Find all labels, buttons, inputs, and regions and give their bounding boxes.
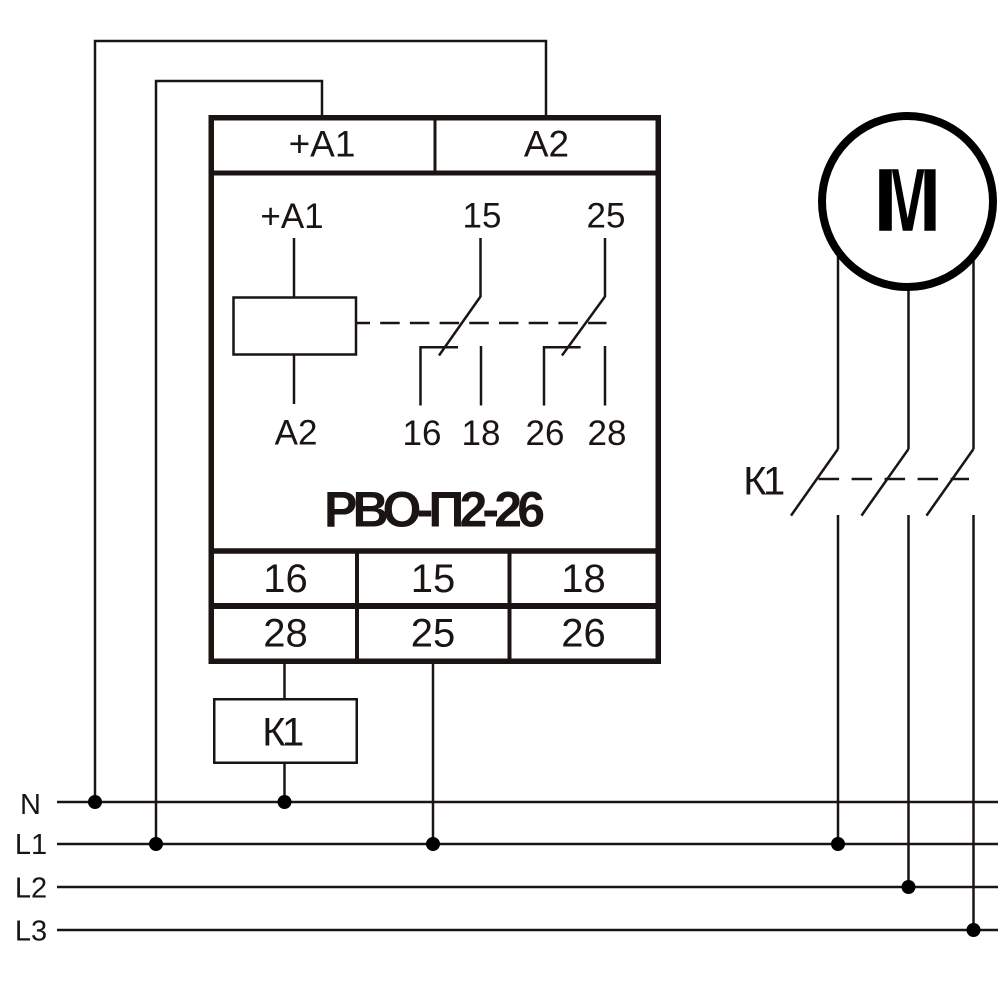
contactor K1 contact arm 1 [791, 449, 838, 516]
svg-text:26: 26 [526, 414, 565, 453]
wire terminal 28 to contactor coil K1 [283, 661, 286, 699]
contact 3 lower stub to L3 [972, 515, 975, 930]
svg-text:N: N [20, 789, 41, 821]
svg-text:L3: L3 [15, 916, 47, 948]
bus L2 [57, 886, 998, 888]
dashed mechanical linkage coil-contacts [357, 322, 607, 325]
dashed linkage of K1 contacts [819, 478, 969, 481]
contact 1 lower stub to L1 [837, 515, 840, 844]
fixed contact 26 (L-shape) [544, 347, 581, 405]
motor M circle [822, 116, 993, 287]
contactor coil K1 box [214, 699, 357, 763]
svg-text:+А1: +А1 [260, 197, 323, 236]
header row separator [209, 171, 662, 176]
terminal table divider right [508, 554, 512, 659]
fixed contact 18 (stub) [480, 346, 483, 406]
motor phase wire 1 [837, 210, 840, 449]
svg-text:А2: А2 [275, 414, 318, 453]
terminal table divider left [355, 554, 359, 659]
wire +A1 to coil [293, 238, 296, 297]
wire pin 15 [479, 238, 482, 297]
svg-text:26: 26 [561, 612, 606, 656]
svg-text:18: 18 [462, 414, 501, 453]
svg-text:16: 16 [403, 414, 442, 453]
contact arm 25-26 (moving contact) [562, 297, 605, 356]
relay U1 body РВО-П2-26 [211, 118, 658, 662]
contact arm 15-16 (moving contact) [439, 297, 481, 356]
bus N [57, 801, 998, 803]
svg-text:L2: L2 [15, 873, 47, 905]
svg-text:К1: К1 [743, 460, 784, 504]
wire feeder from N bus to A2 terminal [95, 41, 546, 802]
svg-text:РВО-П2-26: РВО-П2-26 [324, 482, 545, 538]
svg-text:15: 15 [411, 557, 456, 601]
svg-text:28: 28 [263, 612, 308, 656]
svg-text:+А1: +А1 [289, 124, 356, 165]
wire terminal 25 to L1 bus [432, 661, 435, 844]
motor M letter [879, 169, 935, 230]
junction L3 motor phase 3 [967, 923, 981, 937]
fixed contact 16 (L-shape) [421, 347, 459, 405]
wire feeder from L1 bus to +A1 terminal [156, 81, 322, 844]
svg-text:15: 15 [463, 197, 502, 236]
svg-text:25: 25 [587, 197, 626, 236]
junction N x95 [88, 795, 102, 809]
fixed contact 28 (stub) [604, 346, 607, 406]
svg-text:К1: К1 [262, 711, 303, 755]
contact 2 lower stub to L2 [907, 515, 910, 887]
svg-text:16: 16 [263, 557, 308, 601]
motor phase wire 2 [907, 210, 910, 449]
svg-text:L1: L1 [15, 829, 47, 861]
wire coil to A2 [293, 355, 296, 404]
motor phase wire 3 [972, 210, 975, 449]
svg-text:18: 18 [561, 557, 606, 601]
bus L1 [57, 843, 998, 845]
svg-text:28: 28 [588, 414, 627, 453]
wire coil K1 to N bus [283, 763, 286, 802]
junction L1 terminal 25 [426, 837, 440, 851]
wire pin 25 [604, 238, 607, 297]
bus L3 [57, 929, 998, 931]
contactor K1 contact arm 2 [862, 449, 909, 516]
relay coil K (rectangle) [234, 298, 357, 355]
terminal table top line [209, 548, 662, 554]
svg-text:А2: А2 [524, 124, 569, 165]
terminal table middle line [209, 603, 662, 609]
junction L1 x156 [149, 837, 163, 851]
junction N coil K1 [278, 795, 292, 809]
junction L1 motor phase 1 [831, 837, 845, 851]
svg-text:25: 25 [411, 612, 456, 656]
junction L2 motor phase 2 [902, 880, 916, 894]
header cell divider [434, 121, 437, 171]
contactor K1 contact arm 3 [927, 449, 974, 516]
